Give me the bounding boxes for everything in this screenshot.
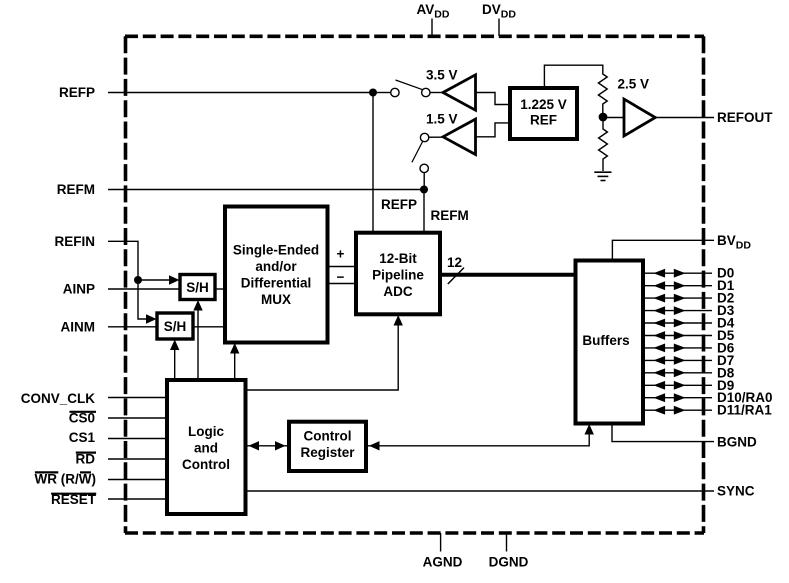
arrow toward control register [275,441,286,450]
svg-text:DGND: DGND [489,555,529,570]
pin DVDD [482,2,516,36]
wire BGND [612,424,714,442]
wire logic to MUX (control) [234,351,236,380]
svg-text:REFP: REFP [381,197,417,212]
resistor R2 [599,121,608,171]
svg-text:and: and [194,441,218,456]
wire AINM [108,326,157,328]
svg-text:Control: Control [304,429,352,444]
svg-text:CONV_CLK: CONV_CLK [21,391,96,406]
buffer amp 1.5V [443,119,476,154]
svg-text:S/H: S/H [164,319,187,334]
wire CS1 [108,438,167,440]
arrow into MUX bottom [230,343,239,354]
voltage reference U1: 1.225 V REF box [510,88,577,139]
wire control register to buffers [366,432,589,446]
wire MUX to ADC (+) [328,266,357,268]
svg-text:REFOUT: REFOUT [717,110,773,125]
buffers block [576,261,644,424]
svg-text:RD: RD [76,452,96,467]
sample/hold S/H1 [180,275,215,300]
node REFIN branch [134,276,142,284]
svg-text:CS1: CS1 [69,430,96,445]
arrow into ADC bottom [394,315,403,326]
svg-text:Buffers: Buffers [582,333,629,348]
mux block: Single-Ended and/or Differential MUX [225,207,328,343]
svg-text:3.5 V: 3.5 V [426,68,458,83]
pin D5 [644,328,735,343]
svg-text:Single-Ended: Single-Ended [233,243,319,258]
wire logic to S/H1 (clock) [197,308,199,380]
pin D3 [644,303,735,318]
wire tap to 2.5V buffer [607,117,624,119]
pin D7 [644,353,734,368]
bus ADC to Buffers (12) [440,273,576,277]
chip boundary (dashed box) [125,36,704,533]
wire logic to S/H2 (clock) [174,348,176,380]
arrow branch into S/H1 [169,275,180,285]
node REFM junction [420,186,428,194]
arrow REFIN into S/H2 [146,314,157,324]
switch S1 (REFP to 3.5V buffer) [377,80,443,97]
pin D11/RA1 [644,403,772,418]
switch S2 (REFM to 1.5V buffer) [412,133,443,189]
wire S/H2 to MUX [193,326,225,328]
svg-text:ADC: ADC [383,284,412,299]
buffer amp 2.5V (REFOUT driver) [624,99,655,136]
svg-text:12-Bit: 12-Bit [379,251,417,266]
svg-text:AGND: AGND [423,555,463,570]
svg-text:12: 12 [447,255,462,270]
svg-text:2.5 V: 2.5 V [618,77,650,92]
wire CS0 [108,417,167,419]
wire REFOUT [655,117,714,119]
wire BVDD [612,240,714,260]
logic block: Logic and Control [167,380,246,514]
svg-text:Control: Control [182,457,230,472]
wire 3.5V buffer to REF box [476,93,511,105]
svg-text:REFP: REFP [59,85,95,100]
node REFP junction [369,89,377,97]
control register block [289,422,366,471]
sample/hold S/H2 [157,313,193,339]
pin D8 [644,365,735,380]
svg-text:and/or: and/or [255,259,297,274]
wire logic to control register (bidirectional) [246,445,290,447]
wire RD [108,458,167,460]
pin D1 [644,278,735,293]
wire MUX to ADC (-) [328,283,357,285]
svg-text:REFM: REFM [57,182,95,197]
svg-text:BGND: BGND [717,435,757,450]
pin D0 [644,266,734,281]
svg-text:SYNC: SYNC [717,484,755,499]
pin D9 [644,378,734,393]
svg-text:AINM: AINM [61,320,96,335]
wire S/H1 to MUX [215,288,225,290]
arrow into S/H1 bottom [193,300,202,311]
svg-text:REFIN: REFIN [55,234,96,249]
svg-text:Pipeline: Pipeline [372,268,424,283]
svg-text:REF: REF [530,113,557,128]
pin D2 [644,291,734,306]
pin D10/RA0 [644,390,773,405]
wire REF box top to resistor divider [544,65,602,88]
svg-text:1.5 V: 1.5 V [426,112,458,127]
svg-text:MUX: MUX [261,292,291,307]
svg-text:WR (R/W): WR (R/W) [35,472,96,487]
arrow toward logic [249,441,260,450]
ground [594,172,611,180]
pin AVDD [417,2,450,36]
wire CONV_CLK [108,397,167,399]
arrow into buffers bottom [585,424,594,435]
svg-text:1.225 V: 1.225 V [520,97,567,112]
wire REFP vertical to ADC [372,93,374,233]
svg-text:S/H: S/H [186,280,209,295]
wire REFIN branch to S/H1 [138,279,170,281]
adc block: 12-Bit Pipeline ADC [356,233,440,315]
resistor R1 [598,72,607,113]
wire WR [108,479,167,481]
arrow into control register (right side) [369,441,380,450]
wire SYNC from logic [246,490,715,492]
svg-text:Logic: Logic [188,424,224,439]
pin AGND [423,533,463,570]
svg-text:AINP: AINP [63,282,95,297]
wire REFM vertical to ADC [423,190,425,233]
svg-text:Differential: Differential [241,276,312,291]
arrow into S/H2 bottom [170,340,179,351]
svg-text:Register: Register [300,445,355,460]
wire RESET [108,498,167,500]
wire REFM [108,189,424,191]
bus width slash [448,268,464,284]
pin DGND [489,533,529,570]
svg-text:+: + [337,247,345,262]
pin D4 [644,316,735,331]
wire logic to ADC (control) [246,323,399,390]
wire AINP [108,288,180,290]
node divider tap [599,113,608,122]
pin D6 [644,340,735,355]
svg-text:−: − [337,270,345,285]
svg-text:REFM: REFM [431,208,469,223]
wire 1.5V buffer to REF box [476,123,511,137]
wire REFP [108,92,373,94]
svg-text:D11/RA1: D11/RA1 [717,403,772,418]
wire REFIN [108,241,147,319]
buffer amp 3.5V [443,75,476,110]
